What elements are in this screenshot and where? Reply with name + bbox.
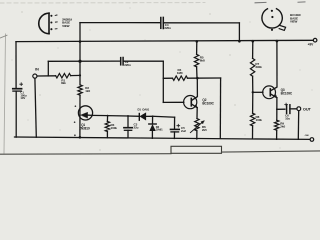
diode D2 wire bottom [151,131,153,139]
gate line from Q1 right [92,114,108,116]
divider R7 wire from rail [252,41,254,58]
svg-text:10u: 10u [285,116,290,120]
diode D2 triangle (pointing up) [150,125,156,131]
resistor R9 zigzag [275,120,279,130]
wire IN drop to ground [35,78,36,137]
diode D1 cathode bar [138,114,140,121]
svg-text:D1: D1 [138,107,142,111]
terminal +9V circle [313,38,317,42]
transistor Q1 gate arrow shaft [87,114,92,116]
node Q3 base divider [252,91,254,93]
transistor Q3 emitter diagonal [271,94,277,98]
wire +9V rail (horizontal, y=41.3) [16,40,313,41]
transistor Q2 base bar [190,98,192,105]
resistor R7 zigzag [250,58,254,76]
svg-text:220n: 220n [164,26,171,30]
capacitor C4 bars [160,18,162,29]
border top noise line [0,2,205,4]
2N3819 base view pin dots [50,15,52,17]
transistor Q2 circle [184,96,197,109]
resistor R5 zigzag [194,54,198,66]
wire Q3 emitter down to R9 [276,98,278,121]
svg-text:2k5: 2k5 [202,128,207,132]
C5 plus sign [177,124,180,127]
wire node A up [47,61,49,76]
wire OUT ground drop [297,111,299,140]
paper noise speckles [12,8,313,151]
node emitter/C6 [276,108,278,110]
node feedback/collector [196,77,199,80]
svg-text:390k: 390k [255,65,262,69]
resistor R5 wire top [196,41,198,54]
capacitor C1 bars [13,88,22,90]
wire drop x=220.5 to ground [219,78,221,138]
transistor Q1 gate arrowhead [81,112,88,118]
svg-text:VIEW: VIEW [290,19,298,23]
resistor R1 zigzag [56,74,71,78]
wire C1 to ground rail [15,91,17,137]
node Dline/D2 [152,115,154,117]
wire drop x=163.3 to Q2 base corner [162,61,164,102]
2N3819 base view D-shape chord [48,13,50,34]
preset R6 wire bottom [196,131,198,139]
transistor Q3 circle [263,86,276,99]
2N3819 base view pin ticks [55,15,57,29]
node R1line/x80 [79,74,81,76]
battery branch left: wire rail2 down to C1 [15,42,17,88]
wire Q3 base line [253,91,263,93]
svg-text:BC109C: BC109C [281,91,293,95]
ground rail bottom [15,137,310,139]
speck near ground rail [74,134,76,136]
resistor R8 zigzag [250,113,254,126]
preset R6 zigzag [195,119,199,131]
node rail2/x80 [79,40,82,43]
capacitor C2 bars [120,58,122,65]
resistor R4 zigzag [173,76,188,80]
node rail2/Q3 collector [276,40,279,43]
node rail2/R5 [196,40,199,43]
node Dline/C3 [127,115,129,117]
node rail2/x239 [238,40,241,43]
capacitor C3 wire top [127,116,129,127]
resistor R5 wire bottom [196,67,198,78]
svg-text:IN: IN [35,67,39,71]
node 59line/x80 [78,60,81,63]
capacitor C5 bars [171,128,180,130]
wire top gate line right of C4 [163,22,239,24]
D-line from D1 to D2 node [146,115,153,117]
transistor Q1 circle [78,106,92,120]
svg-text:100k: 100k [111,126,118,130]
2N3819 base view arc [39,13,49,34]
capacitor C3 wire bottom [127,130,129,138]
resistor R2 zigzag [78,85,82,95]
diode D1 triangle (pointing left) [140,113,146,120]
transistor Q3 collector diagonal and wire to rail [271,41,277,91]
svg-text:OUT: OUT [303,106,312,111]
capacitor C3 bars [124,127,132,129]
svg-text:2u2: 2u2 [181,129,186,133]
transistor Q3 base bar [269,89,271,96]
wire R1 to x=80 vertical [71,74,80,76]
wire feedback line y=78.2 right [188,77,221,79]
svg-text:10V: 10V [20,96,25,100]
BC109C base view pin dots [271,10,273,12]
wire R7 to base node [252,76,254,92]
terminal -ve circle [310,138,314,142]
svg-text:2N3819: 2N3819 [79,126,90,130]
svg-text:-ve: -ve [304,133,309,137]
pin speck near Q1 source [74,121,76,123]
svg-text:39k: 39k [61,81,66,85]
wire x=80 from R2 to Q1 and through to ground rail [79,95,81,137]
border frame top-left tick [0,35,7,38]
wire vertical x=80 from top line to R2 [79,23,81,85]
BC109C base view circle [262,9,282,28]
resistor R3 zigzag [105,122,109,132]
D-line from D2 node to C5 corner [153,115,175,118]
wire IN to node A [37,75,56,77]
background paper [0,0,320,158]
wire C6 to OUT [290,108,297,110]
transistor Q3 emitter arrowhead [274,95,277,98]
resistor R3 wire bottom [106,132,108,138]
wire output line from emitter node [277,108,285,110]
resistor R9 wire bottom [276,130,278,139]
wire Q2 emitter down [196,108,198,119]
node ground/x80 [79,136,82,139]
capacitor C5 wire bottom [173,132,175,139]
diode D2 wire top [152,116,154,123]
border frame bottom tab box [171,146,222,153]
BC109C base view tab [279,26,285,31]
svg-text:1M0: 1M0 [177,71,183,75]
capacitor C6 bars [286,105,288,113]
diode D2 cathode bar [149,123,156,125]
transistor Q2 emitter diagonal [192,104,197,108]
preset R6 arrow diagonal [190,122,203,133]
capacitor C5 wire top [174,117,176,129]
D-line from C3 to D1 [128,115,139,117]
wire Q2 base line [163,101,184,103]
pin speck near Q1 gate [75,105,77,107]
transistor Q2 collector diagonal and wire up [192,78,198,100]
resistor R8 wire top [252,92,254,113]
svg-text:1k0: 1k0 [85,89,90,93]
resistor R8 wire bottom [252,126,254,139]
wire 59-line left of C2 [48,60,120,62]
svg-text:+9V: +9V [308,42,315,46]
svg-text:2k0: 2k0 [280,124,285,128]
border frame bottom edge left [0,153,171,156]
C6 plus sign [285,103,288,106]
wire feedback line y=78.2 left [163,77,172,79]
border frame bottom edge right [222,151,320,152]
wire top gate line y=22.8 left of C4 [80,22,161,24]
resistor R3 wire top [106,116,108,122]
svg-text:OA91: OA91 [156,128,163,132]
svg-text:22u: 22u [134,125,139,129]
node rail2/R7 [252,40,255,43]
svg-text:6k8: 6k8 [200,59,205,63]
wire 59-line right of C2 [123,60,163,62]
border frame faint left edge [4,34,6,153]
terminal IN circle [33,74,37,78]
D-line from R3 node to C3 [108,115,128,117]
terminal OUT circle [297,107,301,111]
svg-text:100k: 100k [256,118,263,122]
node gate/R3 [107,115,109,117]
svg-text:BC109C: BC109C [202,102,214,106]
svg-text:OA91: OA91 [142,107,149,111]
svg-text:220n: 220n [124,63,131,67]
transistor Q2 emitter arrowhead [194,105,197,108]
svg-text:VIEW: VIEW [62,24,70,28]
C1 plus sign [20,83,23,86]
preset R6 arrowhead [201,121,204,124]
wire top-right drop x=239.4 [238,23,240,41]
